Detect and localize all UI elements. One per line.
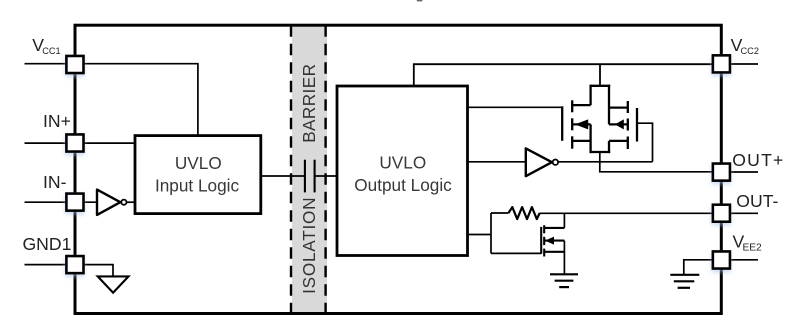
wire GND1 stub bbox=[25, 264, 76, 266]
wire IN- stub bbox=[25, 201, 76, 203]
wire VCC2 rail (UVLO output logic top to VCC2 pin) bbox=[414, 64, 722, 86]
pin IN+ bbox=[66, 135, 83, 152]
wire VEE2 pin to ground bbox=[684, 260, 722, 275]
svg-text:VCC1: VCC1 bbox=[32, 35, 60, 56]
wire OUT- stub bbox=[721, 212, 758, 214]
svg-text:Input Logic: Input Logic bbox=[155, 176, 239, 196]
wire OUT+ stub bbox=[721, 171, 758, 173]
wire VCC1 stub (outside pin) bbox=[25, 63, 76, 65]
pin OUT- bbox=[713, 205, 730, 222]
wire IN+ stub bbox=[25, 142, 76, 144]
wire Q3 source to ground bbox=[563, 241, 565, 275]
capacitor C1 (isolation capacitor) bbox=[304, 160, 306, 193]
barrier left dashed line bbox=[290, 25, 292, 313]
svg-text:Output Logic: Output Logic bbox=[354, 175, 452, 195]
svg-text:IN-: IN- bbox=[43, 172, 67, 192]
pin VCC1 bbox=[66, 56, 83, 73]
device outline border bbox=[75, 25, 721, 313]
figure title remnant (cropped text above diagram) bbox=[417, 0, 423, 1]
svg-text:IN+: IN+ bbox=[43, 111, 71, 131]
transistor Q1/Q2 common node (center column of back-to-back FETs) bbox=[590, 85, 611, 153]
pin GND1 bbox=[66, 256, 83, 273]
wire FET pair to OUT+ pin bbox=[600, 152, 722, 172]
transistor Q1 (left FET of pair) bbox=[562, 100, 590, 148]
wire IN- pin to inverter input bbox=[75, 201, 97, 203]
wire GND1 pin to ground bbox=[75, 265, 113, 277]
wire inverter U3 output to Q2 gate drop bbox=[558, 161, 652, 163]
wire Q2 gate to inverter output bbox=[637, 123, 653, 162]
svg-text:OUT-: OUT- bbox=[736, 191, 778, 211]
transistor Q2 (right FET of pair) bbox=[609, 101, 637, 149]
wire resistor to OUT- pin bbox=[540, 212, 722, 214]
wire IN+ pin to UVLO input logic bbox=[75, 142, 135, 144]
wire UVLO output logic to inverter U3 input bbox=[468, 161, 526, 163]
svg-text:BARRIER: BARRIER bbox=[299, 64, 319, 143]
inverter U2 (IN- input) bbox=[97, 190, 120, 215]
transistor Q3 (pull-down FET) bbox=[541, 225, 564, 256]
pin VCC2 bbox=[713, 55, 730, 72]
pin OUT+ bbox=[713, 164, 730, 181]
resistor R1 bbox=[509, 207, 540, 219]
barrier right dashed line bbox=[324, 25, 326, 313]
wire pulldown branch vertical bbox=[490, 213, 492, 253]
pin IN- bbox=[66, 194, 83, 211]
wire UVLO input logic to isolation capacitor bbox=[261, 175, 304, 177]
ground (earth) below Q3 bbox=[550, 274, 578, 287]
wire VCC2 rail drop to output FET pair bbox=[599, 64, 601, 86]
svg-text:GND1: GND1 bbox=[23, 234, 72, 254]
wire inverter to UVLO input logic bbox=[127, 201, 136, 203]
pin VEE2 bbox=[713, 252, 730, 269]
ground (earth) at VEE2 bbox=[670, 275, 699, 288]
block UVLO Input Logic bbox=[135, 136, 261, 214]
block UVLO Output Logic bbox=[337, 86, 468, 256]
svg-text:VEE2: VEE2 bbox=[733, 231, 763, 253]
ground GND1 (signal ground triangle) bbox=[98, 276, 129, 292]
wire UVLO output logic to pulldown stage bbox=[468, 234, 492, 236]
wire branch to resistor bbox=[491, 212, 509, 214]
svg-text:ISOLATION: ISOLATION bbox=[299, 197, 319, 294]
inverter U3 (drives Q2 gate) bbox=[526, 148, 552, 176]
svg-text:UVLO: UVLO bbox=[379, 153, 426, 173]
wire VCC2 stub bbox=[721, 63, 758, 65]
wire VEE2 stub bbox=[721, 259, 758, 261]
wire isolation capacitor to UVLO output logic bbox=[316, 175, 337, 177]
wire Q3 drain to OUT- net bbox=[563, 213, 565, 228]
wire to Q3 gate bbox=[491, 252, 541, 254]
svg-text:VCC2: VCC2 bbox=[731, 35, 759, 56]
wire VCC1 pin to UVLO input logic top bbox=[75, 64, 198, 136]
isolation barrier gray band bbox=[292, 26, 327, 312]
svg-text:OUT+: OUT+ bbox=[732, 150, 784, 170]
svg-text:UVLO: UVLO bbox=[175, 153, 222, 173]
wire UVLO output logic to Q1 gate bbox=[468, 106, 563, 108]
